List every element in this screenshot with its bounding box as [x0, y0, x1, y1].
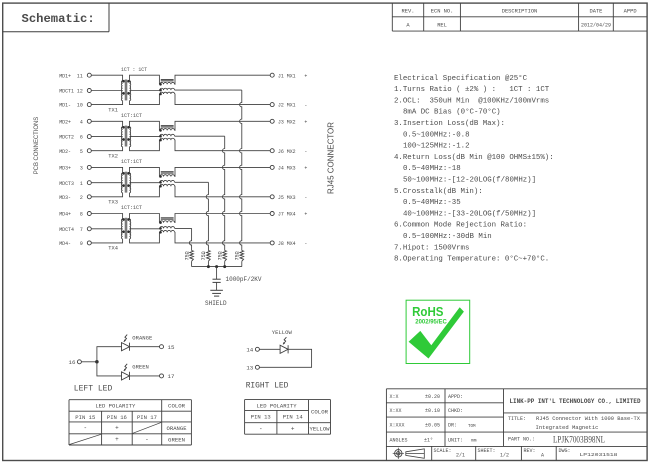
- ground SHIELD: [210, 290, 223, 296]
- LED D3 yellow: [280, 337, 288, 353]
- wire choke L4 to terminal J7: [175, 214, 271, 223]
- svg-text:75Ω: 75Ω: [217, 251, 223, 260]
- svg-text:PIN 16: PIN 16: [107, 414, 128, 421]
- label YELLOW: [272, 329, 293, 336]
- tolerance labels: [390, 394, 477, 444]
- svg-text:J5 MX3 -: J5 MX3 -: [278, 194, 308, 201]
- terminal J3 (MX2 +): [270, 118, 308, 125]
- transformer TX3 secondary winding: [127, 172, 130, 193]
- svg-text:CHKD:: CHKD:: [448, 408, 463, 414]
- wire TX2 secondary top to choke L2 winding A: [130, 121, 160, 130]
- svg-text:1CT:1CT: 1CT:1CT: [121, 113, 143, 119]
- choke L1 winding A: [159, 82, 174, 85]
- LED D2 green: [122, 364, 130, 380]
- right LED polarity table: [245, 400, 331, 435]
- label GREEN: [132, 364, 149, 371]
- wire TX2 secondary center tap to choke L2 winding B: [130, 136, 160, 138]
- svg-text:±0.10: ±0.10: [425, 408, 440, 414]
- terminal pin 16: [69, 359, 82, 366]
- svg-text:2.OCL: 350uH Min @100KHz/100: 2.OCL: 350uH Min @100KHz/100mVrms: [394, 97, 549, 105]
- transformer TX4 secondary winding: [127, 218, 130, 239]
- terminal pin 15: [160, 344, 175, 351]
- svg-text:DR:: DR:: [448, 423, 457, 429]
- svg-text:1CT:1CT: 1CT:1CT: [121, 205, 143, 211]
- choke L4 winding C: [159, 230, 174, 233]
- resistor R4 75 Ohm: [235, 251, 244, 262]
- svg-text:PIN 13: PIN 13: [251, 414, 272, 421]
- svg-text:+: +: [115, 436, 119, 443]
- wire choke L2 to terminal J3: [175, 121, 271, 130]
- label turns ratio TX4: [121, 205, 143, 211]
- svg-text:APPD: APPD: [624, 9, 637, 15]
- terminal J5 (MX3 -): [270, 194, 307, 201]
- wire choke L3 winding B center-tap to resistor R3 (crossover hops): [175, 182, 209, 250]
- wire MD4+ to TX4 primary top: [91, 214, 122, 220]
- svg-text:40~100MHz:-[33-20LOG(f/50MHz)]: 40~100MHz:-[33-20LOG(f/50MHz)]: [403, 210, 536, 218]
- svg-text:MDCT1 12: MDCT1 12: [59, 88, 83, 95]
- wire LED D2 cathode to pin 17: [130, 375, 160, 377]
- svg-text:0.5~100MHz:-30dB Min: 0.5~100MHz:-30dB Min: [403, 233, 492, 241]
- terminal pin 13: [246, 365, 259, 372]
- svg-text:MDCT4 7: MDCT4 7: [59, 226, 83, 233]
- label TX2: [108, 154, 118, 160]
- revision table: [392, 3, 647, 31]
- wire MDCT2 to TX2 primary center tap: [91, 136, 122, 138]
- svg-text:X:XX: X:XX: [390, 408, 402, 414]
- RoHS compliance logo: [406, 300, 470, 363]
- svg-text:MD2- 5: MD2- 5: [59, 148, 83, 155]
- wire MDCT3 to TX3 primary center tap: [91, 182, 122, 184]
- wire choke L3 to terminal J5: [175, 186, 271, 197]
- svg-text:PIN 14: PIN 14: [283, 414, 304, 421]
- svg-text:-: -: [83, 425, 87, 432]
- terminal J1 (MX1 +): [270, 72, 308, 79]
- svg-text:3.Insertion Loss(dB Max):: 3.Insertion Loss(dB Max):: [394, 120, 505, 128]
- svg-text:REV.: REV.: [402, 9, 415, 15]
- junction resistor R2 / rail: [207, 265, 210, 268]
- svg-text:J7 MX4 +: J7 MX4 +: [278, 211, 308, 218]
- choke L2 core: [161, 126, 174, 128]
- terminal J8 (MX4 -): [270, 240, 307, 247]
- svg-text:GREEN: GREEN: [168, 437, 185, 444]
- svg-text:-: -: [259, 426, 263, 433]
- label TX1: [108, 107, 118, 113]
- svg-text:7.Hipot: 1500Vrms: 7.Hipot: 1500Vrms: [394, 244, 469, 252]
- junction node LED common anode: [95, 360, 99, 364]
- terminal J2 (MX1 -): [270, 102, 307, 109]
- svg-text:PART NO.:: PART NO.:: [508, 437, 535, 443]
- label SHIELD: [205, 300, 227, 307]
- svg-text:LEFT LED: LEFT LED: [74, 384, 113, 394]
- svg-text:PCB CONNECTIONS: PCB CONNECTIONS: [33, 117, 40, 175]
- svg-text:8.Operating Temperature: 0°C~+: 8.Operating Temperature: 0°C~+70°C.: [394, 255, 549, 264]
- wire MD3+ to TX3 primary top: [91, 167, 122, 173]
- terminal J7 (MX4 +): [270, 211, 308, 218]
- svg-text:X:XXX: X:XXX: [390, 423, 405, 429]
- svg-text:1.Turns Ratio ( ±2% ) : 1CT: 1.Turns Ratio ( ±2% ) : 1CT : 1CT: [394, 86, 550, 94]
- svg-text:17: 17: [168, 373, 175, 380]
- svg-text:0.5~100MHz:-0.8: 0.5~100MHz:-0.8: [403, 131, 470, 139]
- company name: [510, 398, 641, 405]
- svg-text:Schematic:: Schematic:: [22, 12, 95, 26]
- svg-text:TITLE:: TITLE:: [508, 416, 526, 422]
- transformer TX1 primary winding: [121, 80, 124, 101]
- svg-text:J4 MX3 +: J4 MX3 +: [278, 165, 308, 172]
- svg-text:6.Common Mode Rejection Ratio:: 6.Common Mode Rejection Ratio:: [394, 222, 527, 230]
- svg-text:TX3: TX3: [108, 200, 118, 206]
- svg-text:MD2+ 4: MD2+ 4: [59, 118, 83, 125]
- terminal MD4- pin 9: [59, 240, 91, 247]
- terminal MDCT1 pin 12: [59, 88, 91, 95]
- svg-text:ANGLES: ANGLES: [390, 437, 408, 443]
- svg-text:MD4+ 8: MD4+ 8: [59, 211, 83, 218]
- svg-text:TX2: TX2: [108, 154, 118, 160]
- svg-text:±1°: ±1°: [424, 437, 433, 443]
- caption LEFT LED: [74, 384, 113, 394]
- choke L2 winding A: [159, 129, 174, 132]
- svg-text:MD1- 10: MD1- 10: [59, 102, 83, 109]
- wire resistor R1 to shield rail: [191, 261, 193, 266]
- svg-text:MD4- 9: MD4- 9: [59, 240, 83, 247]
- label turns ratio TX3: [121, 159, 143, 165]
- svg-text:YELLOW: YELLOW: [272, 329, 293, 336]
- svg-text:COLOR: COLOR: [168, 403, 186, 410]
- scale sheet rev dwg labels: [434, 448, 618, 459]
- wire TX2 secondary bottom to choke L2 winding C: [130, 140, 160, 151]
- terminal MD3- pin 2: [59, 194, 91, 201]
- choke L4 winding A: [159, 221, 174, 224]
- svg-text:DESCRIPTION: DESCRIPTION: [502, 9, 538, 15]
- svg-text:0.5~40MHz:-18: 0.5~40MHz:-18: [403, 165, 461, 173]
- svg-text:ORANGE: ORANGE: [167, 425, 188, 432]
- svg-text:8mA DC Bias (0°C-70°C): 8mA DC Bias (0°C-70°C): [403, 108, 501, 117]
- LED D1 orange: [122, 335, 130, 351]
- transformer TX1 secondary winding: [127, 80, 130, 101]
- choke L3 winding A: [159, 175, 174, 178]
- svg-text:SHEET:: SHEET:: [478, 448, 496, 454]
- choke L1 core: [161, 79, 174, 81]
- svg-text:PIN 15: PIN 15: [75, 414, 96, 421]
- terminal pin 17: [160, 373, 175, 380]
- wire junction to LED D2 anode: [97, 362, 122, 376]
- choke L4 core: [161, 218, 174, 220]
- svg-text:Integrated Magnetic: Integrated Magnetic: [536, 425, 599, 431]
- svg-text:RJ45 Connector With 1000 Base-: RJ45 Connector With 1000 Base-TX: [536, 416, 641, 422]
- wire resistor R4 to shield rail: [241, 261, 243, 266]
- svg-text:1000pF/2KV: 1000pF/2KV: [226, 276, 262, 283]
- svg-text:J2 MX1 -: J2 MX1 -: [278, 102, 308, 109]
- choke L3 core: [161, 172, 174, 174]
- svg-text:J1 MX1 +: J1 MX1 +: [278, 72, 308, 79]
- value label 1000pF/2KV: [226, 276, 262, 283]
- transformer TX3 core: [125, 172, 127, 193]
- wire TX4 secondary center tap to choke L4 winding B: [130, 228, 160, 230]
- wire MDCT4 to TX4 primary center tap: [91, 228, 122, 230]
- transformer TX4 core: [125, 218, 127, 239]
- svg-text:Electrical Specification @25°C: Electrical Specification @25°C: [394, 74, 528, 83]
- wire MD4- to TX4 primary bottom: [91, 239, 122, 243]
- svg-text:75Ω: 75Ω: [201, 251, 207, 260]
- svg-text:15: 15: [168, 344, 175, 351]
- svg-text:SHIELD: SHIELD: [205, 300, 227, 307]
- terminal MD1+ pin 11: [59, 72, 91, 79]
- part number: [508, 435, 605, 445]
- wire TX1 secondary bottom to choke L1 winding C: [130, 94, 160, 105]
- svg-text:1CT : 1CT: 1CT : 1CT: [121, 67, 148, 73]
- svg-text:LPJK7003B98NL: LPJK7003B98NL: [553, 435, 605, 445]
- resistor R1 75 Ohm: [184, 251, 193, 262]
- projection symbol: [393, 448, 425, 459]
- terminal J6 (MX2 -): [270, 148, 307, 155]
- svg-text:100~125MHz:-1.2: 100~125MHz:-1.2: [403, 143, 470, 151]
- wire choke L3 to terminal J4: [175, 167, 271, 176]
- svg-text:COLOR: COLOR: [311, 409, 329, 416]
- svg-text:LP12031518: LP12031518: [580, 452, 618, 458]
- terminal MDCT2 pin 6: [59, 134, 91, 141]
- choke L2 winding C: [159, 138, 174, 141]
- svg-text:MD3+ 3: MD3+ 3: [59, 165, 83, 172]
- wire resistor R3 to shield rail: [224, 261, 226, 266]
- caption RIGHT LED: [246, 381, 289, 391]
- wire TX3 secondary top to choke L3 winding A: [130, 167, 160, 176]
- choke L3 winding C: [159, 184, 174, 187]
- wire LED D3 cathode to pin 13: [259, 349, 311, 367]
- electrical specification notes: [394, 74, 554, 264]
- wire MD3- to TX3 primary bottom: [91, 193, 122, 197]
- wire TX3 secondary center tap to choke L3 winding B: [130, 182, 160, 184]
- wire MDCT1 to TX1 primary center tap: [91, 90, 122, 92]
- capacitor C1 1000pF/2KV: [213, 267, 221, 291]
- svg-text:5.Crosstalk(dB Min):: 5.Crosstalk(dB Min):: [394, 188, 483, 196]
- svg-text:REL: REL: [437, 22, 447, 28]
- wire TX4 secondary top to choke L4 winding A: [130, 214, 160, 223]
- svg-text:13: 13: [246, 365, 253, 372]
- svg-text:2012/04/29: 2012/04/29: [581, 22, 611, 28]
- svg-text:2002/95/EC: 2002/95/EC: [415, 318, 447, 325]
- wire choke L1 to terminal J2: [175, 94, 271, 105]
- svg-text:DATE: DATE: [589, 9, 602, 15]
- svg-text:LINK-PP INT'L TECHNOLOGY CO.,: LINK-PP INT'L TECHNOLOGY CO., LIMITED: [510, 398, 641, 405]
- svg-text:APPD:: APPD:: [448, 394, 463, 400]
- terminal MD4+ pin 8: [59, 211, 91, 218]
- svg-text:TX1: TX1: [108, 107, 118, 113]
- drawing title: [508, 416, 641, 431]
- svg-text:ECN NO.: ECN NO.: [431, 9, 454, 15]
- transformer TX2 core: [125, 126, 127, 147]
- wire choke L4 winding B center-tap to resistor R4 (crossover hops): [175, 228, 192, 250]
- wire MD1+ to TX1 primary top: [91, 75, 122, 81]
- transformer TX1 core: [125, 80, 127, 101]
- terminal MD2- pin 5: [59, 148, 91, 155]
- wire choke L2 to terminal J6: [175, 140, 271, 151]
- svg-text:DWG:: DWG:: [559, 448, 571, 454]
- wire TX1 secondary center tap to choke L1 winding B: [130, 90, 160, 92]
- terminal J4 (MX3 +): [270, 165, 308, 172]
- terminal MDCT4 pin 7: [59, 226, 91, 233]
- wire choke L2 winding B center-tap to resistor R2 (crossover hops): [175, 136, 225, 250]
- choke L1 winding B: [159, 88, 174, 91]
- svg-text:ORANGE: ORANGE: [132, 334, 153, 341]
- wire MD2+ to TX2 primary top: [91, 121, 122, 127]
- svg-text:GREEN: GREEN: [132, 364, 149, 371]
- svg-text:MDCT3 1: MDCT3 1: [59, 180, 83, 187]
- svg-text:+: +: [291, 426, 295, 433]
- svg-text:LED POLARITY: LED POLARITY: [95, 403, 136, 410]
- svg-text:TX4: TX4: [108, 246, 118, 252]
- terminal MD2+ pin 4: [59, 118, 91, 125]
- svg-text:X:X: X:X: [390, 394, 399, 400]
- title box 'Schematic:': [3, 3, 109, 32]
- svg-text:0.5~40MHz:-35: 0.5~40MHz:-35: [403, 199, 461, 207]
- svg-text:PIN 17: PIN 17: [137, 414, 157, 421]
- svg-text:J6 MX2 -: J6 MX2 -: [278, 148, 308, 155]
- wire junction to LED D1 anode: [97, 347, 122, 362]
- transformer TX2 secondary winding: [127, 126, 130, 147]
- junction resistor R3 / rail: [223, 265, 226, 268]
- junction capacitor C1 / rail: [215, 265, 218, 268]
- label TX3: [108, 200, 118, 206]
- wire pin16 to LED junction: [81, 361, 97, 363]
- choke L2 winding B: [159, 134, 174, 137]
- svg-text:MD3- 2: MD3- 2: [59, 194, 83, 201]
- wire choke L4 to terminal J8: [175, 232, 271, 243]
- svg-text:LED POLARITY: LED POLARITY: [257, 402, 298, 409]
- svg-text:4.Return Loss(dB Min @100 OHMS: 4.Return Loss(dB Min @100 OHMS±15%):: [394, 154, 554, 162]
- svg-text:SCALE:: SCALE:: [434, 448, 452, 454]
- wire choke L1 to terminal J1: [175, 75, 271, 84]
- wire MD2- to TX2 primary bottom: [91, 147, 122, 151]
- svg-text:TOM: TOM: [468, 425, 476, 429]
- choke L4 winding B: [159, 227, 174, 230]
- svg-text:-: -: [145, 436, 149, 443]
- svg-text:MDCT2 6: MDCT2 6: [59, 134, 83, 141]
- label turns ratio TX2: [121, 113, 143, 119]
- svg-text:RIGHT LED: RIGHT LED: [246, 381, 289, 391]
- resistor R3 75 Ohm: [217, 251, 226, 262]
- choke L1 winding C: [159, 92, 174, 95]
- title block: [386, 389, 647, 461]
- wire TX3 secondary bottom to choke L3 winding C: [130, 186, 160, 197]
- svg-text:75Ω: 75Ω: [235, 251, 241, 260]
- terminal MDCT3 pin 1: [59, 180, 91, 187]
- svg-text:±0.05: ±0.05: [425, 423, 440, 429]
- svg-text:A: A: [541, 453, 544, 459]
- svg-text:1CT:1CT: 1CT:1CT: [121, 159, 143, 165]
- svg-text:+: +: [115, 425, 119, 432]
- svg-text:16: 16: [69, 359, 76, 366]
- svg-text:YELLOW: YELLOW: [310, 426, 331, 433]
- choke L3 winding B: [159, 180, 174, 183]
- transformer TX4 primary winding: [121, 218, 124, 239]
- svg-text:J8 MX4 -: J8 MX4 -: [278, 240, 308, 247]
- wire resistor R2 to shield rail: [207, 261, 209, 266]
- svg-text:2/1: 2/1: [456, 453, 465, 459]
- transformer TX2 primary winding: [121, 126, 124, 147]
- svg-text:MD1+ 11: MD1+ 11: [59, 72, 83, 79]
- wire LED D1 cathode to pin 15: [130, 346, 160, 348]
- svg-text:REV:: REV:: [524, 448, 536, 454]
- svg-text:±0.20: ±0.20: [425, 394, 440, 400]
- svg-text:UNIT:: UNIT:: [448, 437, 463, 443]
- svg-text:RJ45 CONNECTOR: RJ45 CONNECTOR: [327, 122, 336, 194]
- wire MD1- to TX1 primary bottom: [91, 101, 122, 105]
- resistor R2 75 Ohm: [201, 251, 210, 262]
- wire choke L1 winding B center-tap to resistor R1 (crossover hops): [175, 90, 242, 250]
- wire pin14 to LED D3 anode: [259, 348, 280, 350]
- left LED polarity table: [69, 400, 191, 445]
- label PCB CONNECTIONS: [33, 117, 40, 175]
- label ORANGE: [132, 334, 153, 341]
- wire TX4 secondary bottom to choke L4 winding C: [130, 232, 160, 243]
- terminal MD1- pin 10: [59, 102, 91, 109]
- svg-text:50~100MHz:-[12-20LOG(f/80MHz)]: 50~100MHz:-[12-20LOG(f/80MHz)]: [403, 177, 536, 185]
- svg-text:14: 14: [246, 347, 253, 354]
- label RJ45 CONNECTOR: [327, 122, 336, 194]
- svg-text:mm: mm: [471, 438, 477, 443]
- svg-text:J3 MX2 +: J3 MX2 +: [278, 118, 308, 125]
- svg-text:RoHS: RoHS: [412, 305, 443, 319]
- label TX4: [108, 246, 118, 252]
- label turns ratio TX1: [121, 67, 148, 73]
- terminal pin 14: [246, 347, 259, 354]
- terminal MD3+ pin 3: [59, 165, 91, 172]
- wire TX1 secondary top to choke L1 winding A: [130, 75, 160, 84]
- transformer TX3 primary winding: [121, 172, 124, 193]
- shield rail wire: [192, 266, 242, 268]
- svg-text:1/2: 1/2: [500, 453, 509, 459]
- svg-text:75Ω: 75Ω: [184, 251, 190, 260]
